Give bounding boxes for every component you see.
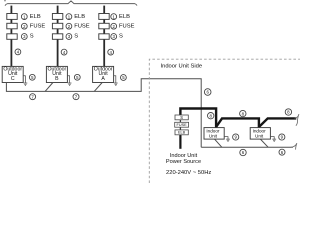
label circle 6 (continuation right) (279, 149, 285, 155)
svg-text:ELB: ELB (178, 131, 186, 135)
label circle 9 ground (indoor unit 1) (233, 134, 239, 140)
label circle 1 ELB (feed 1) (21, 14, 40, 20)
label circle 1 ELB (feed 2) (66, 14, 85, 20)
breaker ELB (feed 1) (7, 14, 17, 20)
label circle 9 ground (indoor unit 2) (279, 134, 285, 140)
ground: indoor unit 2 (270, 137, 276, 142)
svg-text:S: S (30, 34, 34, 40)
wire: feed 1 vertical (to outdoor unit C) (10, 6, 12, 67)
wire: feed 2 vertical (to outdoor unit B) (57, 6, 59, 67)
switch S (feed 1) (7, 34, 17, 40)
svg-text:FUSE: FUSE (177, 123, 188, 127)
svg-text:C: C (11, 76, 15, 82)
svg-text:ELB: ELB (119, 14, 130, 20)
thick wire: bus from indoor unit 1 to indoor unit 2 (216, 118, 259, 127)
label circle 1 ELB (feed 3) (111, 14, 130, 20)
svg-text:FUSE: FUSE (74, 23, 90, 29)
indoor unit 1 (204, 128, 224, 140)
wire: branch from indoor unit 2 to line 6 (260, 139, 268, 147)
switch S (indoor power) (175, 115, 188, 120)
ground: outdoor unit A (114, 76, 118, 86)
continuation squiggle (thick bus end) (295, 114, 299, 126)
label circle 6 (between indoor unit 1 and 2) (240, 149, 246, 155)
svg-text:FUSE: FUSE (119, 23, 135, 29)
fuse FUSE (feed 1) (7, 23, 17, 29)
svg-text:220-240V ~ 50Hz: 220-240V ~ 50Hz (166, 170, 211, 176)
svg-text:Indoor Unit Side: Indoor Unit Side (161, 63, 203, 69)
label circle 5 ground (unit C) (29, 74, 35, 80)
wire: indoor power source lead (179, 115, 181, 135)
dashed boundary: indoor unit side (149, 59, 300, 183)
label circle 7 (between B and A) (73, 94, 79, 100)
svg-text:ELB: ELB (74, 14, 85, 20)
svg-text:S: S (74, 34, 78, 40)
svg-text:Unit: Unit (209, 133, 218, 138)
fuse FUSE (feed 3) (99, 23, 109, 29)
svg-text:S: S (180, 115, 183, 120)
wire: feed 3 vertical (to outdoor unit A) (103, 6, 105, 67)
svg-text:FUSE: FUSE (30, 23, 46, 29)
svg-text:ELB: ELB (30, 14, 41, 20)
wire: indoor connecting line (6) bottom run (201, 146, 293, 148)
ground: indoor unit 1 (224, 137, 230, 142)
wire: branch up to outdoor unit A (94, 83, 102, 92)
svg-text:Power Source: Power Source (166, 159, 201, 165)
wire: inter-unit connecting line (7) and link to indoor side (6) (6, 79, 201, 148)
label circle 6 (outdoor-indoor connecting cable) (204, 89, 211, 96)
label circle 8 (bus continuing) (285, 109, 291, 115)
svg-text:A: A (101, 76, 105, 82)
fuse FUSE (feed 2) (52, 23, 62, 29)
label circle 5 ground (unit A) (121, 75, 127, 81)
label circle 3 S (feed 1) (21, 34, 33, 40)
brace: outdoor power source bracket (5, 1, 137, 6)
breaker ELB (indoor power) (175, 130, 188, 135)
label circle 2 FUSE (feed 3) (111, 23, 135, 29)
outdoor unit C (2, 66, 23, 82)
svg-text:Unit: Unit (255, 133, 264, 138)
breaker ELB (feed 3) (99, 14, 109, 20)
svg-text:B: B (55, 76, 59, 82)
ground: outdoor unit B (67, 76, 71, 86)
label circle 8 (power feed) (208, 113, 214, 119)
label circle 2 FUSE (feed 2) (66, 23, 90, 29)
breaker ELB (feed 2) (52, 14, 62, 20)
outdoor unit B (46, 66, 67, 82)
thick wire: indoor power source bottom lead (179, 135, 181, 149)
label circle 3 S (feed 3) (111, 34, 123, 40)
ground: outdoor unit C (23, 76, 27, 86)
wire: branch up to outdoor unit B (45, 83, 53, 92)
svg-text:S: S (119, 34, 123, 40)
label circle 4 cable (feed 1) (15, 49, 21, 55)
label circle 2 FUSE (feed 1) (21, 23, 45, 29)
continuation squiggle (bottom line end) (291, 143, 297, 149)
label circle 7 (between C and B) (30, 94, 36, 100)
label circle 3 S (feed 2) (66, 34, 78, 40)
wire: branch from indoor unit 1 to line 6 (215, 139, 222, 147)
switch S (feed 3) (99, 34, 109, 40)
label circle 8 (bus 1-2) (240, 110, 246, 116)
fuse FUSE (indoor power) (175, 122, 189, 127)
stray mark (cropped glyph above brace) (4, 0, 6, 1)
label circle 4 cable (feed 2) (61, 49, 67, 55)
thick wire: indoor power feed to indoor unit 1 (180, 109, 216, 128)
switch S (feed 2) (52, 34, 62, 40)
outdoor unit A (93, 66, 114, 82)
thick wire: bus from indoor unit 2 continuing right (259, 118, 296, 127)
label circle 5 ground (unit B) (74, 74, 80, 80)
label circle 4 cable (feed 3) (108, 49, 114, 55)
indoor unit 2 (250, 128, 270, 140)
